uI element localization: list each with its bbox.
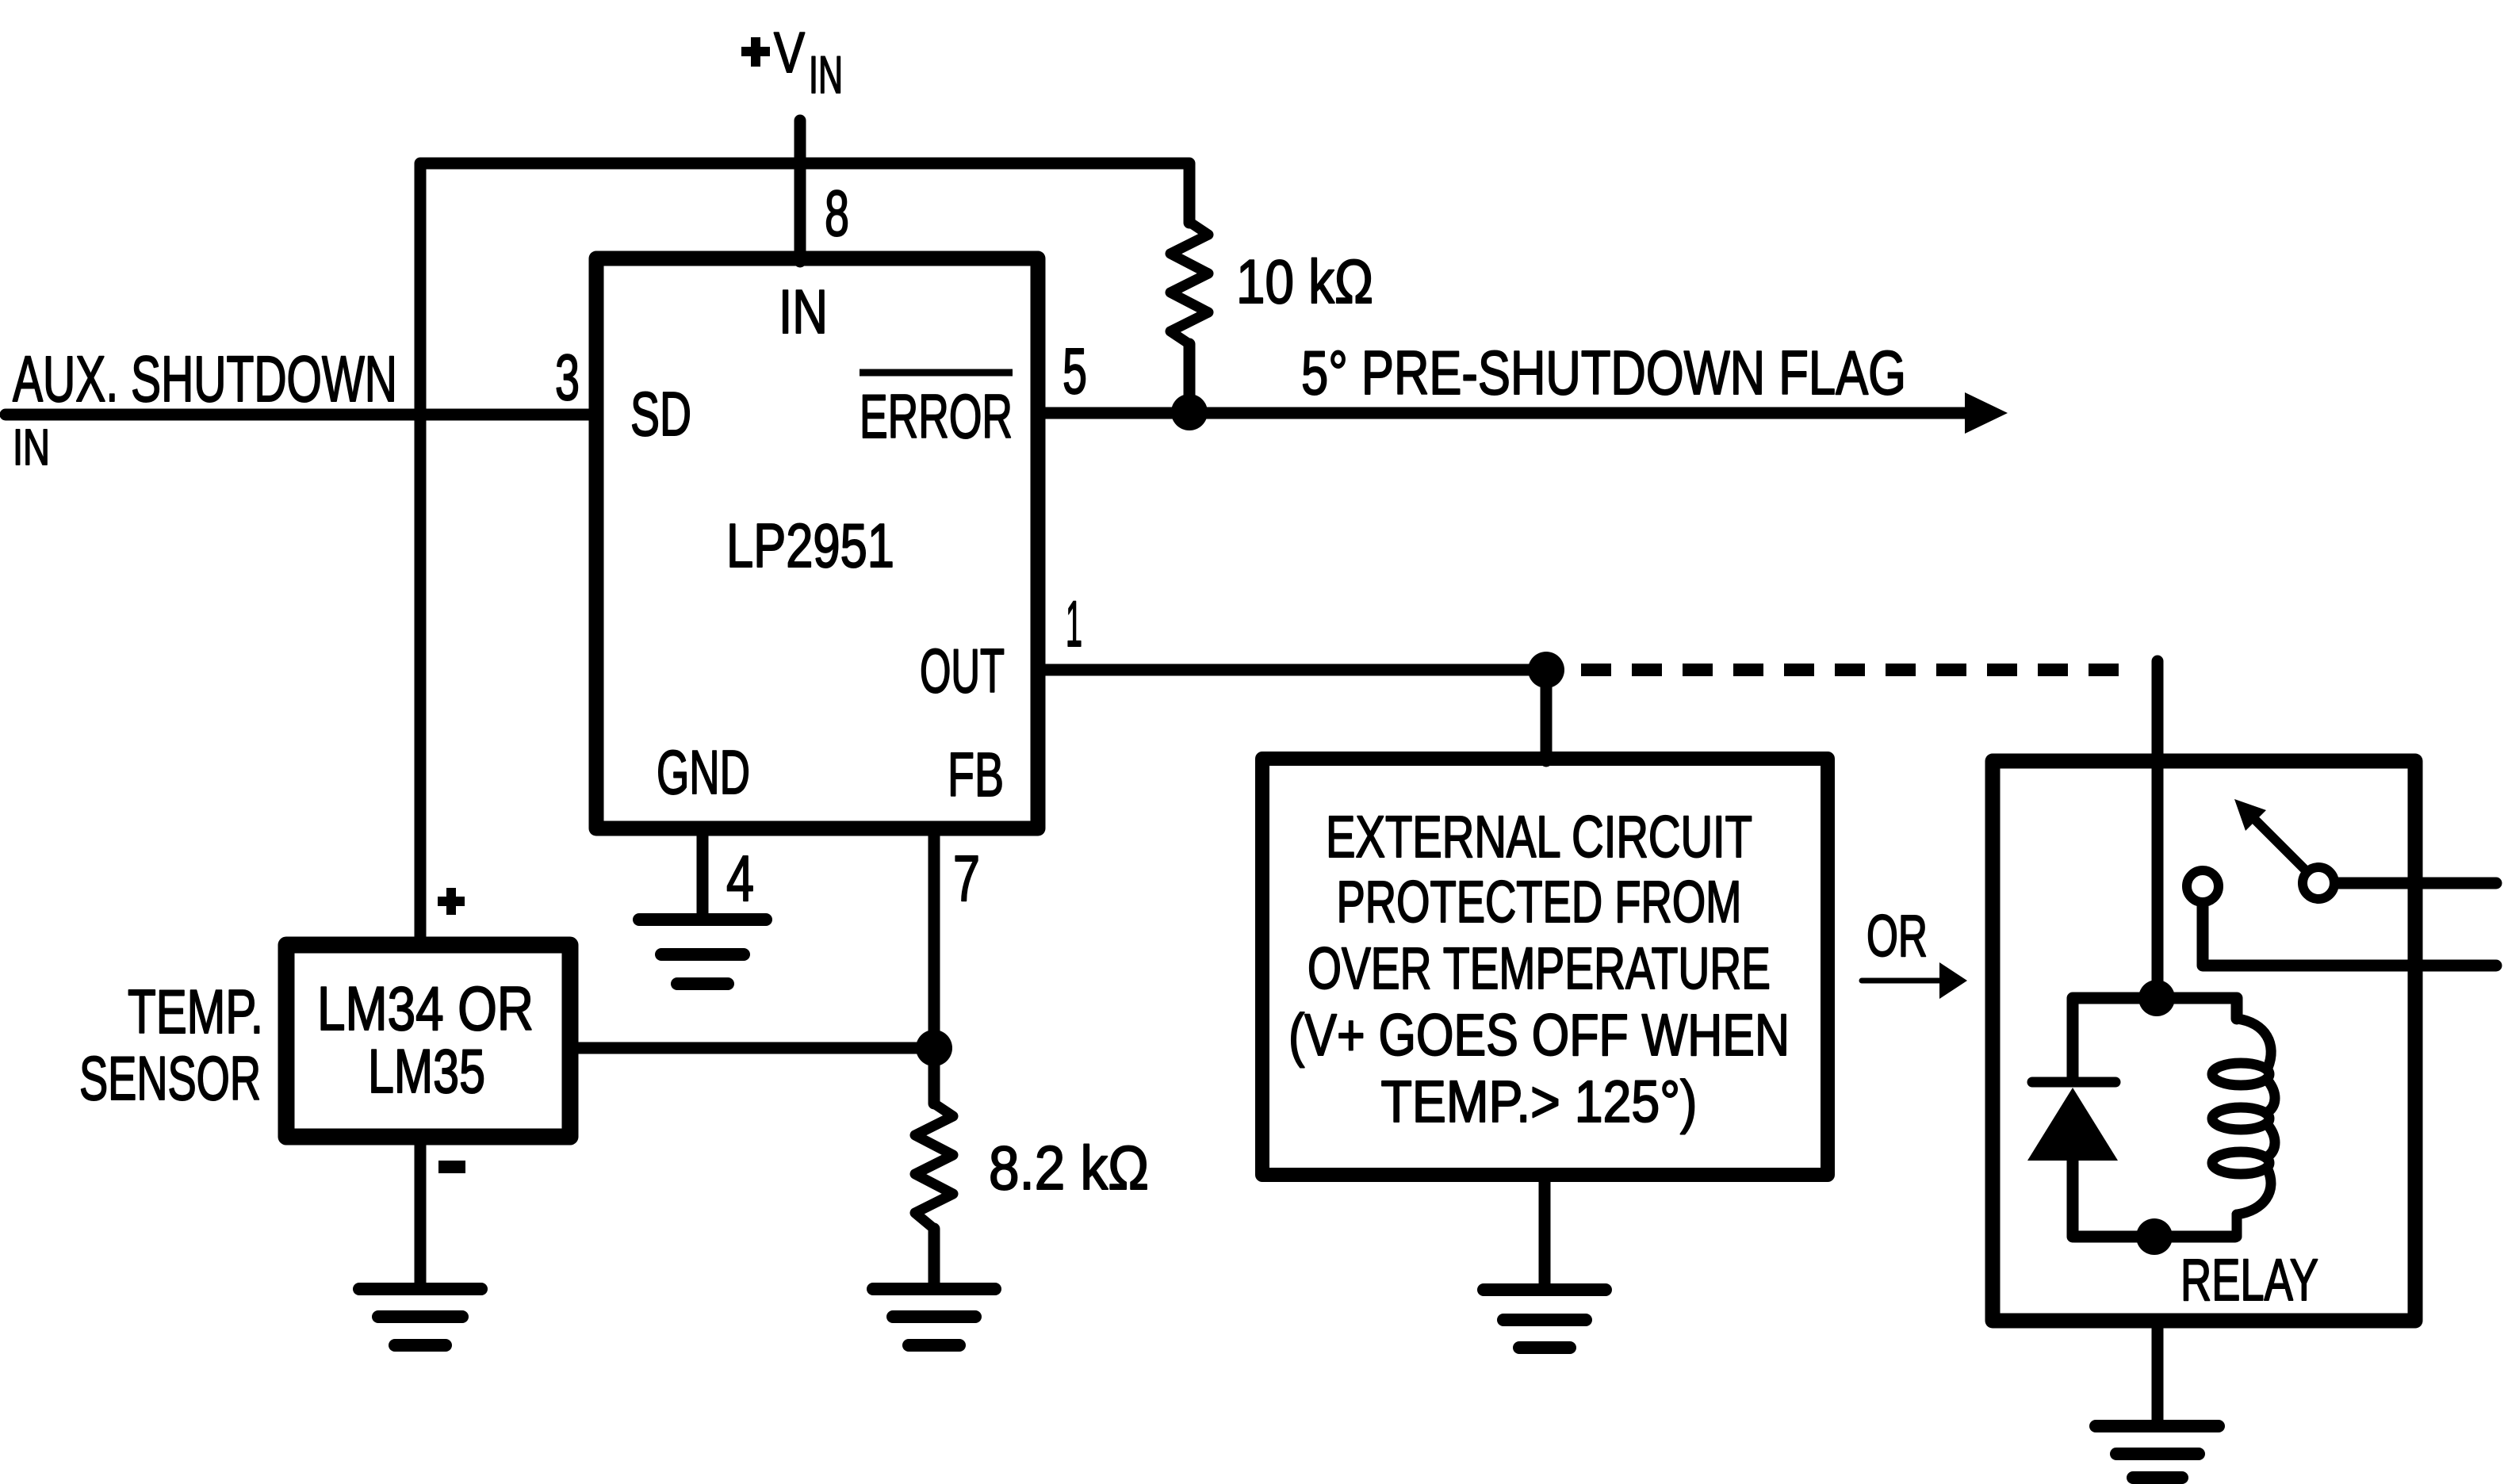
minus terminal of LM sensor: [438, 1161, 465, 1173]
wire 10k bottom to ERROR line: [1184, 344, 1196, 411]
svg-text:8.2 kΩ: 8.2 kΩ: [989, 1133, 1149, 1203]
pin 5 label: [1062, 335, 1087, 407]
wire top rail: left vertical + top horizontal + drop to 10k: [420, 163, 1189, 936]
wire diode anode down: [2067, 1161, 2079, 1237]
svg-text:IN: IN: [13, 419, 50, 476]
junction dot coil bottom: [2136, 1218, 2173, 1255]
svg-text:SD: SD: [630, 379, 691, 449]
node AUX. SHUTDOWN IN label: [13, 343, 397, 476]
wire coil bottom horizontal: [2074, 1231, 2235, 1243]
wire coil top branch: [2157, 998, 2237, 1019]
resistor R1 value label 10 kOhm: [1236, 247, 1373, 316]
pin 7 label: [953, 843, 980, 915]
ERROR overline: [860, 369, 1013, 377]
svg-text:IN: IN: [779, 277, 828, 346]
ground for relay: [2096, 1426, 2219, 1478]
junction dot OUT node: [1528, 652, 1564, 688]
wire relay feed vertical: [2152, 661, 2164, 998]
pin 4 label: [726, 843, 754, 915]
svg-text:TEMP.: TEMP.: [128, 977, 263, 1046]
svg-text:LM35: LM35: [368, 1036, 485, 1106]
junction dot coil top: [2138, 980, 2175, 1016]
wire external box down to ground: [1539, 1182, 1551, 1290]
node RELAY label: [2180, 1247, 2318, 1313]
svg-text:V: V: [774, 21, 805, 85]
node OR label: [1867, 903, 1928, 969]
svg-text:LM34 OR: LM34 OR: [317, 973, 534, 1043]
svg-text:4: 4: [726, 843, 754, 915]
pin 1 label: [1066, 588, 1082, 660]
wire relay box down to ground: [2152, 1329, 2164, 1420]
wire FB pin 7 down to 8.2k: [928, 829, 940, 1103]
svg-text:OVER TEMPERATURE: OVER TEMPERATURE: [1308, 935, 1771, 1001]
svg-text:OUT: OUT: [920, 636, 1005, 706]
svg-text:5: 5: [1062, 335, 1087, 407]
diode D1 triangle: [2027, 1088, 2118, 1161]
diode D1 cathode bar: [2032, 1077, 2115, 1088]
wire ERROR pin 5 to flag arrow: [1041, 407, 1990, 419]
switch pole circle left: [2187, 870, 2219, 902]
svg-text:FB: FB: [948, 740, 1004, 809]
junction dot ERROR/10k: [1171, 394, 1208, 430]
switch arm with arrow: [2257, 821, 2306, 870]
resistor R2 8.2k zigzag: [915, 1103, 953, 1229]
wire AUX. SHUTDOWN IN to pin 3 SD: [6, 409, 593, 421]
switch pole circle right: [2303, 867, 2334, 899]
sensor U2 LM34/LM35 box: [286, 945, 570, 1137]
external circuit box: [1262, 759, 1828, 1175]
svg-text:3: 3: [555, 342, 580, 414]
op IC U1 LP2951 box: [596, 258, 1038, 828]
wire 8.2k bottom to ground: [928, 1229, 940, 1283]
svg-text:10 kΩ: 10 kΩ: [1236, 247, 1373, 316]
ground for LM sensor: [359, 1289, 481, 1345]
wire LM sensor minus down to ground: [415, 1145, 427, 1283]
wire OUT junction down to external circuit box: [1541, 670, 1553, 761]
pin 3 label: [555, 342, 580, 414]
svg-text:PROTECTED FROM: PROTECTED FROM: [1337, 869, 1742, 935]
wire dashed OUT to relay: [1581, 664, 2137, 676]
wire switch left contact out: [2203, 907, 2496, 966]
svg-text:SENSOR: SENSOR: [79, 1043, 261, 1113]
svg-text:5° PRE-SHUTDOWN FLAG: 5° PRE-SHUTDOWN FLAG: [1301, 338, 1906, 407]
arrow OR: [1862, 978, 1939, 984]
svg-text:LP2951: LP2951: [726, 511, 894, 580]
resistor R1 10k zigzag: [1170, 222, 1208, 344]
resistor R2 value label 8.2 kOhm: [989, 1133, 1149, 1203]
ground for 8.2k: [873, 1289, 995, 1345]
svg-text:OR: OR: [1867, 903, 1928, 969]
pin 8 label: [825, 178, 849, 250]
ground for external box: [1484, 1290, 1606, 1348]
wire switch common out right: [2339, 878, 2496, 889]
svg-text:8: 8: [825, 178, 849, 250]
node 5 deg PRE-SHUTDOWN FLAG label: [1301, 338, 1906, 407]
arrowhead flag output: [1965, 392, 2008, 434]
svg-text:7: 7: [953, 843, 980, 915]
wire +VIN vertical to pin 8: [794, 120, 806, 262]
node +VIN supply label: [741, 21, 843, 104]
wire LM34 output to FB node: [579, 1042, 934, 1054]
svg-text:IN: IN: [809, 45, 843, 104]
svg-text:GND: GND: [657, 737, 750, 807]
inductor L1 relay coil: [2212, 1019, 2275, 1237]
junction dot FB node: [916, 1030, 952, 1066]
svg-text:ERROR: ERROR: [860, 381, 1013, 451]
wire GND pin 4 down: [697, 829, 709, 920]
svg-text:TEMP.> 125°): TEMP.> 125°): [1381, 1069, 1698, 1134]
svg-text:RELAY: RELAY: [2180, 1247, 2318, 1313]
svg-text:(V+ GOES OFF WHEN: (V+ GOES OFF WHEN: [1288, 1002, 1790, 1068]
wire OUT pin 1 to junction: [1041, 664, 1546, 676]
ground for pin 4: [639, 920, 766, 984]
wire diode top branch: [2073, 998, 2157, 1078]
svg-text:EXTERNAL CIRCUIT: EXTERNAL CIRCUIT: [1326, 804, 1752, 870]
svg-text:1: 1: [1066, 588, 1082, 660]
svg-text:AUX. SHUTDOWN: AUX. SHUTDOWN: [13, 343, 397, 415]
plus terminal of LM sensor: [438, 888, 465, 915]
relay box: [1993, 761, 2415, 1321]
